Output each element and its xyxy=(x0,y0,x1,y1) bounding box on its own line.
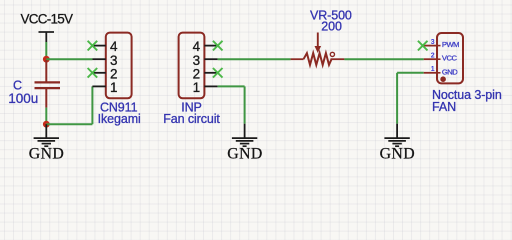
FAN pin 2 stub (VCC) xyxy=(424,58,437,60)
svg-text:PWM: PWM xyxy=(442,40,459,49)
svg-text:2: 2 xyxy=(431,53,435,60)
wire INP pin 3 to potentiometer VR left xyxy=(218,58,291,60)
CN911 pin 4 stub xyxy=(92,45,105,47)
svg-text:Ikegami: Ikegami xyxy=(98,112,141,126)
ground GND3 bars xyxy=(384,137,409,139)
power flag VCC-15V symbol xyxy=(39,32,55,42)
FAN inner pin tick 3 xyxy=(437,45,441,47)
VR wiper arrow shaft xyxy=(317,33,319,47)
node B junction dot (ground net) xyxy=(43,121,50,128)
wire node A to CN911 pin 3 xyxy=(46,58,92,60)
wire capacitor bottom to node B xyxy=(45,108,47,125)
CN911 pin 3 stub xyxy=(92,58,105,60)
svg-text:VCC: VCC xyxy=(442,54,458,63)
INP pin 2 stub xyxy=(204,72,217,74)
ground GND2 xyxy=(227,124,262,163)
wire node B to CN911 pin 1 leg xyxy=(46,123,92,125)
svg-text:100u: 100u xyxy=(8,91,38,106)
CN911 pin 2 stub xyxy=(92,72,105,74)
VR right lead xyxy=(331,58,345,60)
no-connect X on FAN PWM pin xyxy=(418,41,428,51)
wire INP pin 1 to GND2 xyxy=(218,86,245,123)
svg-text:GND: GND xyxy=(227,146,262,163)
no-connect X on INP pin 2 xyxy=(213,68,223,78)
connector Noctua 3-pin FAN xyxy=(424,33,502,114)
connector INP Fan circuit xyxy=(163,33,220,126)
ground GND1 bars xyxy=(34,137,59,139)
svg-text:GND: GND xyxy=(380,146,415,163)
no-connect X on CN911 pin 2 xyxy=(88,68,98,78)
no-connect X on INP pin 4 xyxy=(213,41,223,51)
VR wiper arrow head xyxy=(315,46,322,53)
no-connect X on CN911 pin 4 xyxy=(88,41,98,51)
svg-text:Fan circuit: Fan circuit xyxy=(163,112,220,126)
FAN polarity marker dot xyxy=(440,76,446,82)
svg-text:FAN: FAN xyxy=(432,100,456,114)
node A junction dot (VCC rail) xyxy=(43,56,50,63)
ground GND1 xyxy=(29,124,64,162)
capacitor C top plate xyxy=(35,81,61,83)
capacitor C bottom plate xyxy=(35,87,61,89)
svg-text:1: 1 xyxy=(110,80,118,95)
wire potentiometer to FAN VCC pin 2 xyxy=(344,58,423,60)
connector INP body xyxy=(179,33,205,99)
CN911 pin 1 stub xyxy=(92,85,105,87)
INP pin 3 stub xyxy=(204,58,217,60)
FAN pin 1 stub (GND) xyxy=(424,72,437,74)
svg-text:3: 3 xyxy=(431,39,435,46)
FAN inner pin tick 2 xyxy=(437,58,441,60)
VR left lead xyxy=(291,58,304,60)
wire CN911 pin 1 down leg xyxy=(91,86,93,124)
svg-text:VCC-15V: VCC-15V xyxy=(21,11,74,26)
ground GND3 lead xyxy=(396,124,398,138)
connector CN911 body xyxy=(106,33,132,99)
connector FAN body xyxy=(437,33,463,83)
ground GND2 lead xyxy=(244,124,246,138)
connector CN911 Ikegami xyxy=(92,33,140,126)
VR terminal circle xyxy=(330,52,334,56)
wire FAN GND pin 1 to GND3 xyxy=(397,73,424,124)
capacitor C bottom lead xyxy=(45,88,47,108)
svg-text:1: 1 xyxy=(431,66,435,73)
INP pin 1 stub xyxy=(204,85,217,87)
wire VCC flag to node A xyxy=(45,42,47,59)
ground GND3 xyxy=(380,124,415,163)
ground GND1 lead xyxy=(45,124,47,138)
svg-text:200: 200 xyxy=(321,19,342,33)
FAN inner pin tick 1 xyxy=(437,72,441,74)
capacitor C 100u xyxy=(8,60,60,108)
svg-text:GND: GND xyxy=(442,67,458,76)
svg-text:1: 1 xyxy=(193,80,201,95)
capacitor C top lead xyxy=(45,60,47,82)
ground GND2 bars xyxy=(232,137,257,139)
svg-text:GND: GND xyxy=(29,146,64,163)
INP pin 4 stub xyxy=(204,45,217,47)
FAN pin 3 stub (PWM) xyxy=(424,45,437,47)
potentiometer VR-500 200 xyxy=(291,8,352,65)
VR resistive zigzag body xyxy=(304,53,332,65)
